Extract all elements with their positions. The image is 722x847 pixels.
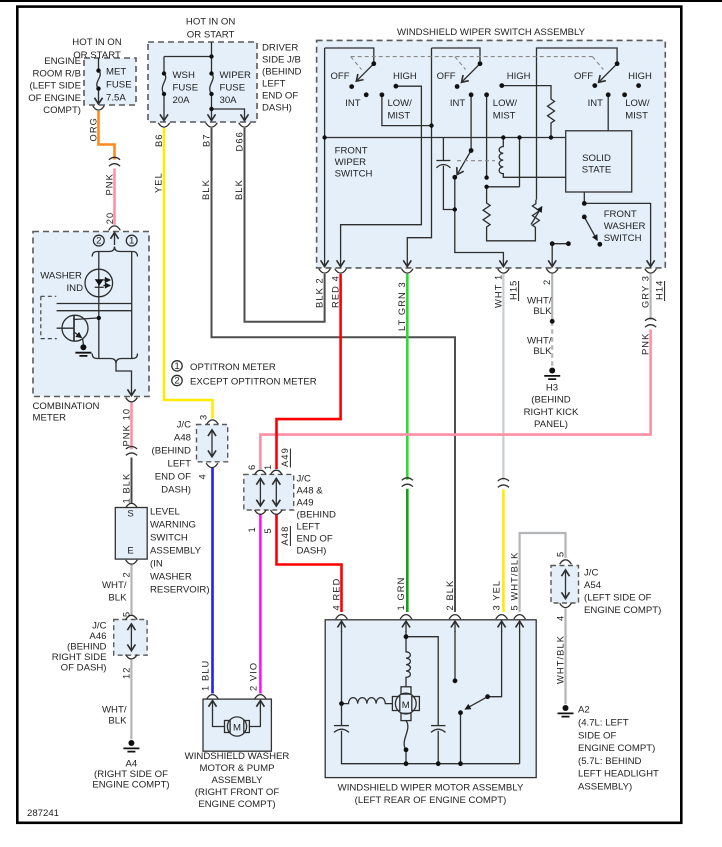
svg-text:30A: 30A (220, 95, 238, 106)
svg-text:OPTITRON METER: OPTITRON METER (190, 362, 276, 373)
svg-text:WHT 1: WHT 1 (493, 274, 503, 308)
svg-text:4: 4 (198, 473, 208, 479)
svg-text:ENGINE COMPT): ENGINE COMPT) (578, 743, 655, 754)
svg-text:1 BLU: 1 BLU (200, 660, 210, 691)
svg-text:SWITCH: SWITCH (604, 233, 642, 244)
svg-text:LEFT HEADLIGHT: LEFT HEADLIGHT (578, 769, 659, 780)
svg-text:ORG: ORG (89, 117, 99, 141)
svg-text:FUSE: FUSE (173, 83, 199, 94)
svg-text:287241: 287241 (27, 808, 59, 819)
svg-text:WASHER: WASHER (150, 572, 192, 583)
svg-text:H3: H3 (546, 383, 558, 394)
svg-text:2 VIO: 2 VIO (248, 662, 258, 691)
svg-text:LT GRN 3: LT GRN 3 (397, 281, 407, 331)
svg-text:RIGHT SIDE: RIGHT SIDE (52, 652, 107, 663)
svg-text:OFF: OFF (437, 71, 456, 82)
svg-text:12: 12 (121, 666, 131, 679)
svg-text:M: M (402, 700, 410, 711)
svg-text:MIST: MIST (388, 111, 411, 122)
svg-text:WHT/BLK: WHT/BLK (556, 635, 566, 684)
svg-text:WHT/: WHT/ (102, 580, 127, 591)
svg-text:(4.7L: LEFT: (4.7L: LEFT (578, 718, 629, 729)
svg-text:ENGINE COMPT): ENGINE COMPT) (198, 799, 275, 810)
svg-text:B7: B7 (201, 133, 211, 147)
svg-text:MOTOR & PUMP: MOTOR & PUMP (200, 763, 275, 774)
svg-text:(LEFT REAR OF ENGINE COMPT): (LEFT REAR OF ENGINE COMPT) (355, 795, 507, 806)
svg-text:HOT IN ON: HOT IN ON (186, 17, 235, 28)
svg-text:DASH): DASH) (297, 546, 327, 557)
svg-text:DASH): DASH) (161, 485, 191, 496)
svg-text:(LEFT SIDE: (LEFT SIDE (29, 81, 81, 92)
svg-text:(5.7L: BEHIND: (5.7L: BEHIND (578, 756, 642, 767)
svg-text:BLK 2: BLK 2 (315, 277, 325, 308)
svg-text:OFF: OFF (331, 71, 350, 82)
svg-text:(BEHIND: (BEHIND (262, 67, 302, 78)
svg-text:INT: INT (450, 98, 466, 109)
svg-text:COMPT): COMPT) (43, 105, 81, 116)
svg-text:BLK: BLK (108, 716, 127, 727)
svg-text:LOW/: LOW/ (388, 98, 413, 109)
svg-text:FUSE: FUSE (220, 83, 246, 94)
svg-text:5: 5 (556, 551, 566, 557)
svg-text:5: 5 (122, 611, 132, 617)
svg-text:(BEHIND: (BEHIND (152, 446, 192, 457)
svg-text:DASH): DASH) (262, 103, 292, 114)
svg-text:3 YEL: 3 YEL (492, 580, 502, 611)
svg-text:HIGH: HIGH (507, 71, 531, 82)
svg-text:SIDE OF: SIDE OF (578, 730, 617, 741)
svg-text:E: E (127, 546, 133, 557)
svg-text:SWITCH: SWITCH (150, 533, 188, 544)
svg-text:WHT/: WHT/ (527, 336, 552, 347)
svg-text:SOLID: SOLID (582, 153, 611, 164)
svg-text:A49: A49 (280, 447, 290, 467)
svg-text:ASSEMBLY: ASSEMBLY (211, 775, 263, 786)
svg-text:5 WHT/BLK: 5 WHT/BLK (510, 552, 520, 611)
svg-text:MIST: MIST (493, 111, 516, 122)
svg-text:PNK: PNK (105, 173, 115, 195)
svg-text:1: 1 (263, 464, 273, 470)
svg-text:WHT/: WHT/ (102, 705, 127, 716)
svg-text:FRONT: FRONT (604, 209, 637, 220)
svg-text:7.5A: 7.5A (106, 93, 126, 104)
svg-text:WASHER: WASHER (604, 221, 646, 232)
svg-text:YEL: YEL (154, 172, 164, 193)
svg-text:J/C: J/C (177, 420, 191, 431)
svg-text:J/C: J/C (92, 621, 106, 632)
svg-text:J/C: J/C (297, 474, 311, 485)
svg-text:4 RED: 4 RED (332, 578, 342, 611)
svg-text:OF ENGINE: OF ENGINE (28, 93, 81, 104)
svg-text:B6: B6 (154, 133, 164, 147)
svg-text:LOW/: LOW/ (625, 98, 650, 109)
svg-text:HIGH: HIGH (628, 71, 652, 82)
svg-text:FUSE: FUSE (106, 80, 132, 91)
svg-text:WARNING: WARNING (150, 520, 196, 531)
svg-text:2: 2 (96, 236, 101, 247)
svg-text:DRIVER: DRIVER (262, 43, 298, 54)
svg-text:WASHER: WASHER (40, 271, 82, 282)
svg-text:FRONT: FRONT (335, 146, 368, 157)
svg-text:1 GRN: 1 GRN (396, 577, 406, 611)
svg-text:A46: A46 (89, 631, 106, 642)
svg-text:MIST: MIST (625, 111, 648, 122)
svg-text:WINDSHIELD WASHER: WINDSHIELD WASHER (185, 751, 290, 762)
svg-text:INT: INT (345, 98, 361, 109)
svg-text:(RIGHT SIDE OF: (RIGHT SIDE OF (94, 769, 168, 780)
svg-text:2: 2 (542, 279, 552, 285)
svg-text:COMBINATION: COMBINATION (33, 401, 100, 412)
svg-text:METER: METER (33, 413, 67, 424)
svg-text:BLK: BLK (533, 306, 552, 317)
svg-text:END OF: END OF (262, 91, 298, 102)
svg-text:LOW/: LOW/ (493, 98, 518, 109)
svg-text:STATE: STATE (582, 165, 612, 176)
svg-text:PNK: PNK (641, 333, 651, 355)
svg-text:H14: H14 (655, 280, 665, 300)
svg-text:S: S (127, 509, 133, 520)
svg-text:WINDSHIELD WIPER MOTOR ASSEMBL: WINDSHIELD WIPER MOTOR ASSEMBLY (338, 783, 524, 794)
svg-text:WIPER: WIPER (220, 70, 252, 81)
svg-text:MET: MET (106, 67, 126, 78)
svg-text:A54: A54 (584, 580, 602, 591)
svg-text:20A: 20A (173, 95, 191, 106)
svg-text:PANEL): PANEL) (534, 419, 568, 430)
svg-text:6: 6 (247, 464, 257, 470)
svg-text:J/C: J/C (584, 568, 598, 579)
svg-text:EXCEPT OPTITRON METER: EXCEPT OPTITRON METER (190, 377, 317, 388)
svg-text:RIGHT KICK: RIGHT KICK (524, 407, 579, 418)
svg-text:RESERVOIR): RESERVOIR) (150, 585, 210, 596)
svg-text:4: 4 (556, 615, 566, 621)
svg-text:1: 1 (129, 236, 134, 247)
svg-text:WHT/: WHT/ (527, 296, 552, 307)
svg-text:LEFT: LEFT (297, 522, 321, 533)
svg-text:ROOM R/B: ROOM R/B (32, 68, 81, 79)
svg-text:BLK: BLK (108, 593, 127, 604)
svg-text:(BEHIND: (BEHIND (297, 510, 337, 521)
svg-text:A4: A4 (126, 759, 138, 770)
svg-text:(BEHIND: (BEHIND (67, 642, 107, 653)
svg-text:LEFT: LEFT (168, 459, 192, 470)
svg-text:LEFT: LEFT (262, 79, 286, 90)
svg-text:(IN: (IN (150, 559, 163, 570)
svg-text:2: 2 (122, 571, 132, 577)
svg-text:A48: A48 (174, 433, 191, 444)
svg-text:RED 4: RED 4 (331, 275, 341, 308)
svg-text:(RIGHT FRONT OF: (RIGHT FRONT OF (195, 787, 280, 798)
svg-text:OF DASH): OF DASH) (61, 663, 107, 674)
svg-text:2 BLK: 2 BLK (445, 580, 455, 611)
svg-text:HOT IN ON: HOT IN ON (72, 37, 121, 48)
svg-text:2: 2 (174, 376, 179, 387)
svg-text:SWITCH: SWITCH (335, 169, 373, 180)
svg-text:END OF: END OF (297, 534, 333, 545)
svg-text:3: 3 (199, 414, 209, 420)
svg-text:BLK: BLK (201, 179, 211, 200)
svg-text:SIDE J/B: SIDE J/B (262, 55, 301, 66)
svg-text:ENGINE: ENGINE (44, 56, 81, 67)
svg-text:WINDSHIELD WIPER SWITCH ASSEMB: WINDSHIELD WIPER SWITCH ASSEMBLY (397, 27, 586, 38)
svg-text:(LEFT SIDE OF: (LEFT SIDE OF (584, 593, 652, 604)
svg-text:PNK 10: PNK 10 (122, 408, 132, 447)
svg-text:LEVEL: LEVEL (150, 507, 181, 518)
svg-text:END OF: END OF (155, 472, 191, 483)
svg-text:D66: D66 (235, 131, 245, 151)
svg-text:A49: A49 (297, 498, 314, 509)
svg-text:BLK: BLK (234, 179, 244, 200)
svg-text:A2: A2 (578, 705, 590, 716)
svg-text:WIPER: WIPER (335, 157, 367, 168)
svg-text:H15: H15 (509, 280, 519, 300)
svg-text:HIGH: HIGH (393, 71, 417, 82)
svg-text:INT: INT (588, 98, 604, 109)
svg-text:5: 5 (263, 527, 273, 533)
svg-text:1: 1 (174, 361, 179, 372)
svg-text:OFF: OFF (574, 71, 593, 82)
svg-text:ENGINE COMPT): ENGINE COMPT) (92, 780, 169, 791)
svg-text:IND: IND (66, 283, 83, 294)
svg-text:WSH: WSH (173, 70, 195, 81)
svg-text:(BEHIND: (BEHIND (531, 395, 571, 406)
svg-text:GRY 3: GRY 3 (641, 275, 651, 308)
svg-text:ASSEMBLY: ASSEMBLY (150, 546, 202, 557)
svg-text:BLK: BLK (533, 346, 552, 357)
svg-text:A48 &: A48 & (297, 486, 324, 497)
svg-text:ENGINE COMPT): ENGINE COMPT) (584, 605, 661, 616)
svg-text:M: M (233, 723, 241, 734)
svg-text:A48: A48 (280, 526, 290, 546)
svg-text:1: 1 (247, 526, 257, 532)
svg-text:1 BLK: 1 BLK (122, 473, 132, 504)
svg-text:ASSEMBLY): ASSEMBLY) (578, 781, 632, 792)
svg-text:OR START: OR START (187, 30, 235, 41)
svg-text:20: 20 (105, 212, 115, 225)
